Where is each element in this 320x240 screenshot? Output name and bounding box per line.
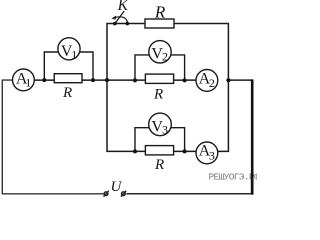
svg-text:2: 2 [209,76,215,90]
svg-text:3: 3 [162,123,168,137]
wire: right bus vertical [251,79,254,194]
svg-text:1: 1 [71,48,77,62]
svg-text:R: R [153,86,163,102]
node: left end of V2/R block [133,78,137,82]
node: left end of V3/R block [133,149,137,153]
svg-text:R: R [154,3,166,22]
wire: row1-row2 horizontal from A1 to A2 [34,79,196,81]
switch K [111,0,129,25]
resistor R1 (left parallel block) [54,74,82,101]
svg-text:U: U [110,179,122,195]
svg-text:R: R [62,85,72,101]
node: junction after A2 [226,78,230,82]
svg-text:3: 3 [209,149,215,163]
svg-text:2: 2 [162,49,168,63]
wire: A3 output up to A2 junction [217,80,228,151]
ammeter A3 [196,142,218,164]
node: right end of V3/R block [183,149,187,153]
wire: junction to right bus corner [228,79,252,81]
node: right end of V2/R block [183,78,187,82]
wire: V3 parallel loop [135,128,185,152]
wire: V2 parallel loop [135,55,185,81]
ammeter A2 [196,70,218,92]
svg-text:K: K [117,0,129,14]
node: main bus junction [105,78,109,82]
node: right end of V1/R block [91,78,95,82]
voltmeter V2 [149,41,171,64]
voltmeter V3 [149,113,172,137]
wire: bottom-right wire to U terminal [126,193,252,195]
voltmeter V1 [58,38,80,62]
wire: V1 parallel loop [44,52,93,80]
terminal: U left clamp [104,191,109,197]
resistor R3 (bottom parallel block) [145,146,173,173]
resistor R top branch [145,3,174,28]
wire: bus down to row3 and row3 horizontal to A3 [107,80,197,151]
svg-text:РЕШУОГЭ.РФ: РЕШУОГЭ.РФ [209,172,258,183]
node: junction after A1 [42,78,46,82]
ammeter A1 [13,69,35,91]
svg-text:1: 1 [25,76,31,90]
wire: top branch loop (bus up, top wire with switch+R, down to A2 junction) [107,24,228,81]
wire: right bus overlap on watermark [251,170,254,195]
svg-text:R: R [154,157,164,173]
terminal: U right clamp [121,191,126,197]
wire: left bus from A1 down and bottom-left wire to U terminal [2,80,103,194]
resistor R2 (middle parallel block) [145,74,173,102]
